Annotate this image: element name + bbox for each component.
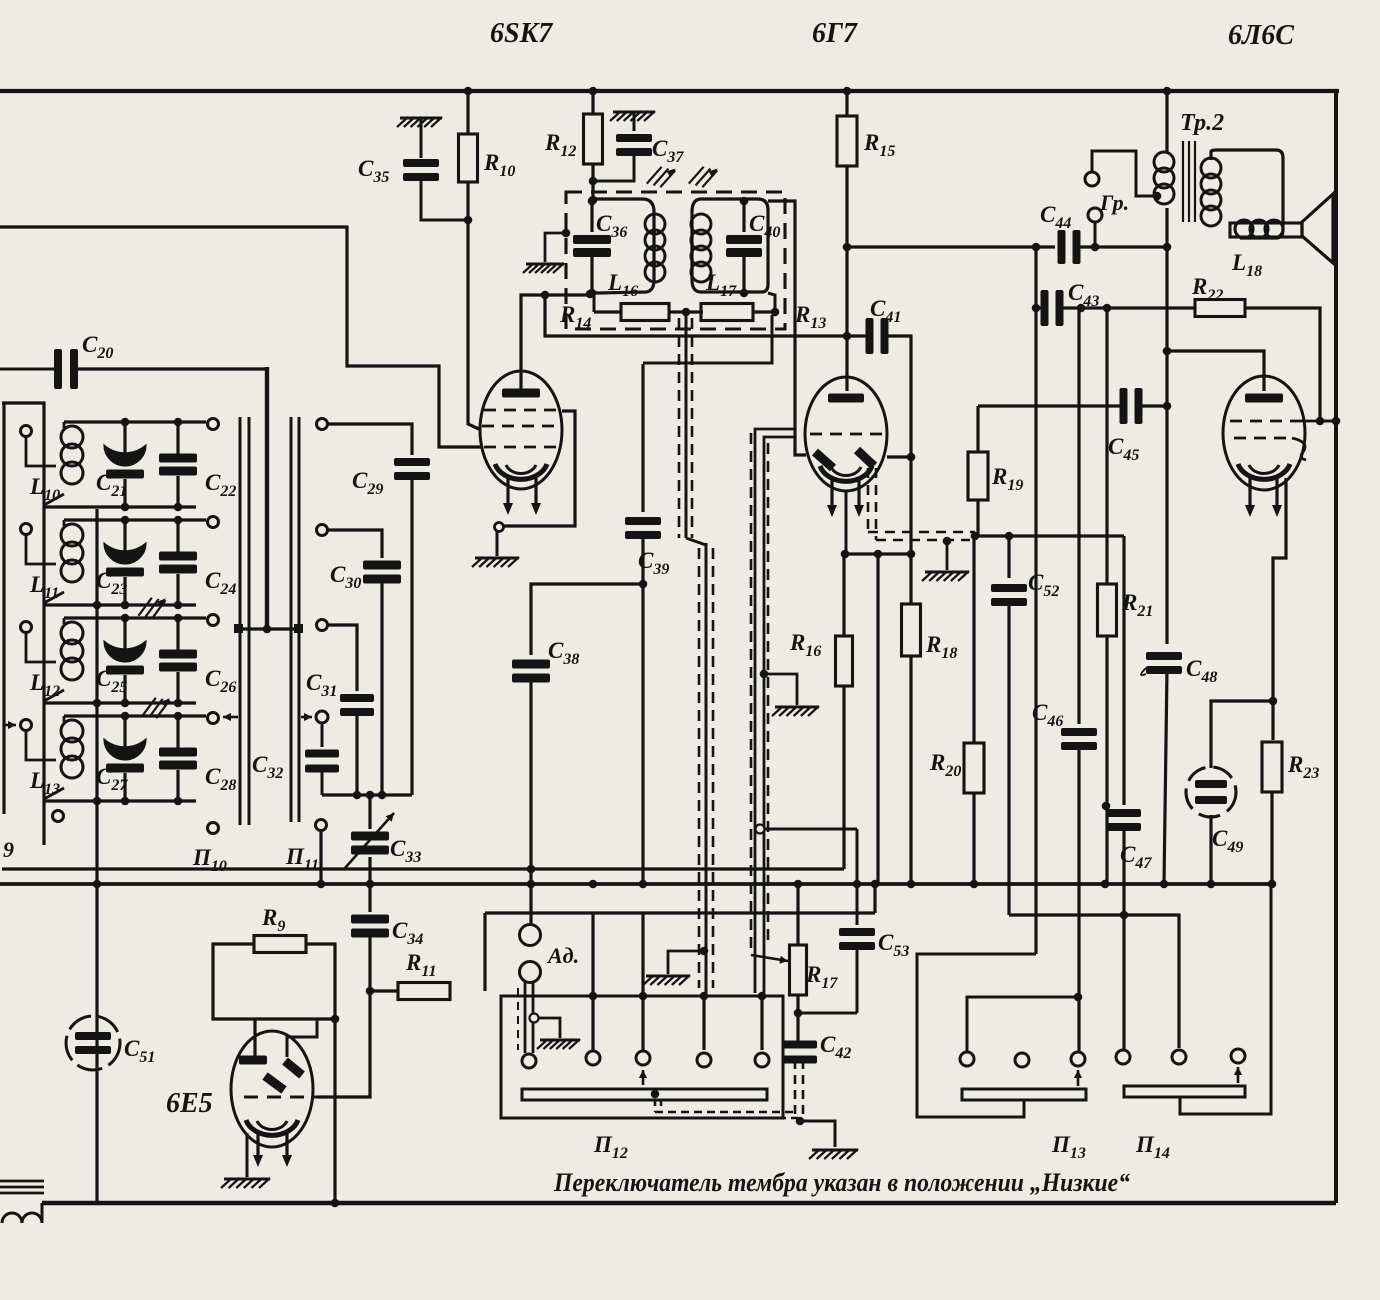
tube 6SK7 xyxy=(480,371,562,489)
wire dashed pair to П12 bar xyxy=(655,1098,798,1118)
wire 6SK7 top cap link xyxy=(521,290,594,389)
capacitor C39 xyxy=(625,517,661,539)
ground П12 right xyxy=(643,975,690,985)
inductor L18 voice coil xyxy=(1230,220,1302,238)
wire mid ground bracket xyxy=(760,670,797,705)
grid 6Г7 dashes xyxy=(810,433,882,436)
wire 6E5 cathode to ground xyxy=(246,1133,249,1177)
label C24 xyxy=(205,568,236,598)
inductor L17 xyxy=(691,214,711,282)
label C32 xyxy=(252,752,283,782)
wire П12 contact3 stem xyxy=(639,913,648,1050)
electrode 6SK7 top cap xyxy=(502,389,540,398)
electrode 6E5 deflector xyxy=(265,1061,302,1090)
label C28 xyxy=(205,764,236,794)
wire 6SK7 anode right xyxy=(504,411,575,526)
wire C41 right xyxy=(885,336,915,461)
node band4 terminal right xyxy=(208,713,219,724)
electrode 6E5 target xyxy=(239,1056,267,1065)
capacitor C38 xyxy=(512,660,550,683)
resistor R14 xyxy=(621,304,669,321)
wire П11 row3 to C31a xyxy=(317,620,358,692)
inductor L10 xyxy=(44,422,83,505)
wire chassis bus upper xyxy=(2,867,844,870)
wire R22 right xyxy=(1245,308,1324,425)
wire right border xyxy=(1334,91,1338,1203)
capacitor C40 xyxy=(726,197,762,298)
svg-text:Гр.: Гр. xyxy=(1099,190,1129,215)
switch box П12 xyxy=(501,996,783,1118)
capacitor C29 xyxy=(394,458,430,795)
resistor R22 xyxy=(1195,300,1245,317)
electrode 6Л6С top cap xyxy=(1245,394,1283,403)
label C43 xyxy=(1068,280,1099,310)
resistor R12 xyxy=(584,114,603,164)
wire C38 to antenna jack xyxy=(527,678,536,925)
filament 6E5 arrows xyxy=(253,1132,292,1167)
label Гр. xyxy=(1099,190,1129,215)
label L16 xyxy=(607,270,638,300)
capacitor C33 padder xyxy=(345,813,394,868)
wire dashed to R19 node xyxy=(868,532,975,540)
cathode 6Г7 xyxy=(820,466,872,481)
capacitor C21 variable xyxy=(104,422,146,507)
node top bus junctions xyxy=(464,87,1172,96)
node band3 terminal right xyxy=(208,615,219,626)
label П10 xyxy=(192,845,227,875)
filament 6Л6С arrows xyxy=(1245,478,1282,517)
switch П14 bar xyxy=(1124,1086,1245,1097)
wire R19 bottom xyxy=(976,500,979,536)
inductor L12 xyxy=(44,618,83,701)
label L10 xyxy=(29,474,60,504)
wire tank2 to 6G7 grid xyxy=(768,201,806,455)
capacitor C23 variable xyxy=(104,520,146,605)
wire band3 bottom row xyxy=(44,699,196,708)
label П14 xyxy=(1135,1132,1170,1162)
wire 6E5 grid stem xyxy=(287,1019,317,1057)
wire ground stem AVC xyxy=(943,537,952,570)
label П11 xyxy=(285,844,319,874)
wire band2 bottom row xyxy=(44,601,196,610)
wire П12 contact2 stem xyxy=(589,880,598,1050)
capacitor C27 variable xyxy=(104,716,146,801)
wire C42 dashed down xyxy=(795,1060,803,1114)
node П14 contact2 xyxy=(1172,1050,1186,1064)
wire R17 stem top xyxy=(794,554,878,888)
node Гр terminals xyxy=(1085,172,1102,222)
wire 6SK7 cathode stem xyxy=(496,531,499,556)
node antenna jack xyxy=(520,925,541,983)
inductor L16 xyxy=(645,214,665,282)
label L13 xyxy=(29,768,60,798)
wire C41 left xyxy=(847,334,869,337)
wire AVC bundle A xyxy=(679,312,713,993)
label П13 xyxy=(1051,1132,1086,1162)
label R22 xyxy=(1191,274,1223,304)
wire R17 C53 link xyxy=(798,1012,857,1015)
label C53 xyxy=(878,930,909,960)
cathode 6Л6С xyxy=(1238,464,1290,479)
capacitor C22 trimmer xyxy=(159,422,197,507)
wire chassis link line xyxy=(485,880,879,913)
shield box IF transformer xyxy=(566,192,785,329)
wire band4 bottom row xyxy=(44,797,196,806)
wire C48 down xyxy=(1160,670,1169,888)
cathode 6E5 xyxy=(246,1120,298,1135)
core mark band coils lower xyxy=(142,694,169,720)
speaker horn xyxy=(1302,194,1333,263)
wire arrow into band4 right circle xyxy=(223,713,238,721)
node C31 terminal circle xyxy=(316,711,328,723)
wire 6E5 grid dashes xyxy=(244,1096,318,1099)
tube 6Л6С xyxy=(1223,376,1305,490)
resistor R23 xyxy=(1262,742,1282,792)
node band2 terminal right xyxy=(208,517,219,528)
node П13 contact3 xyxy=(1071,1052,1085,1086)
switch П12 bar xyxy=(522,1089,767,1100)
tube 6Г7 xyxy=(805,377,887,491)
wire C44 column down xyxy=(1034,247,1037,954)
core mark band coils upper xyxy=(138,594,165,620)
capacitor C28 trimmer xyxy=(159,716,197,801)
wire C39 down xyxy=(639,535,648,888)
node П10 circle xyxy=(208,823,219,834)
capacitor C31 upper pair xyxy=(340,694,374,795)
wire plate line to C44 xyxy=(847,245,1055,248)
node band1 terminal left xyxy=(21,426,32,437)
ground shield tap xyxy=(537,1039,580,1049)
wire R9 left leg xyxy=(213,944,339,1023)
wire C43 line xyxy=(1032,304,1196,313)
label C49 xyxy=(1212,826,1243,856)
wire C33 to bus xyxy=(366,857,375,912)
wire chassis bus lower xyxy=(0,882,1272,886)
resistor R17 xyxy=(790,945,807,995)
wire left outer vertical xyxy=(2,403,5,814)
label C51 xyxy=(124,1036,155,1066)
label R18 xyxy=(925,632,957,662)
resistor R20 xyxy=(964,536,984,888)
wire arrow into R17 xyxy=(751,955,788,964)
svg-text:6SK7: 6SK7 xyxy=(490,18,553,49)
wire band4 top row xyxy=(64,712,206,721)
wire left RF common vertical xyxy=(93,509,102,1203)
resistor R15 xyxy=(837,116,857,166)
node П12 contact5 xyxy=(755,1053,769,1067)
transformer Тр.2 core xyxy=(1183,141,1195,222)
wire trimmer row junction xyxy=(322,791,412,800)
capacitor C46 xyxy=(1061,308,1097,1052)
wire tank1 loop xyxy=(592,199,654,293)
wire 6E5 target stem xyxy=(253,1019,256,1058)
label C29 xyxy=(352,468,383,498)
wire rotor bridge xyxy=(234,624,303,633)
label C44 xyxy=(1040,202,1071,232)
node band4 terminal left xyxy=(21,720,32,731)
wire band1 terminal stem xyxy=(26,436,56,466)
label L12 xyxy=(29,670,60,700)
label R21 xyxy=(1121,590,1153,620)
wire П11 row1 to C29 xyxy=(317,419,413,456)
label C47 xyxy=(1120,842,1152,872)
wire AVC bundle B xyxy=(751,429,795,1000)
wire 6Г7 anode xyxy=(887,455,911,458)
label 6Л6С xyxy=(1228,20,1294,51)
wire C52 to П14 link xyxy=(1009,911,1179,1048)
label Ад. xyxy=(546,943,579,968)
node П12 contact1 xyxy=(522,1054,536,1068)
label 6Г7 xyxy=(812,18,858,49)
tube 6E5 xyxy=(231,1031,313,1147)
ground left of C36 bracket xyxy=(545,229,570,262)
ground above C35 xyxy=(397,117,442,127)
node П13 contact2 xyxy=(1015,1053,1029,1067)
wire R13 right to tank2 xyxy=(768,293,775,312)
capacitor C24 trimmer xyxy=(159,520,197,605)
wire plate branch to C41 xyxy=(545,295,845,336)
wire R15 top xyxy=(845,91,848,116)
label R20 xyxy=(929,750,961,780)
wire П14 rotor path xyxy=(1180,886,1271,1114)
ground 6E5 xyxy=(221,1178,270,1188)
node shield tap xyxy=(530,1014,561,1039)
cathode 6SK7 xyxy=(495,464,547,479)
wire R12 bottom xyxy=(589,164,598,204)
wire C33 column xyxy=(368,795,371,829)
transformer Тр.2 primary xyxy=(1154,91,1174,247)
capacitor C47 xyxy=(1107,536,1141,1050)
wire 6E5 grid link xyxy=(318,991,370,1097)
wire Гр upper link xyxy=(1092,151,1161,200)
filament 6Г7 arrows xyxy=(827,480,864,517)
wire П13 rotor path xyxy=(917,954,1036,1117)
node R19 bottom junction xyxy=(971,532,1014,541)
wire C49 bracket xyxy=(1211,701,1273,768)
label R9 xyxy=(261,905,285,935)
wire band2 terminal stem xyxy=(26,534,56,564)
wire R10 bottom xyxy=(464,182,473,224)
capacitor C31 lower pair xyxy=(305,723,339,795)
label C27 xyxy=(96,764,128,794)
wire П12 contact5 stem xyxy=(760,996,763,1050)
wire П13 bracket xyxy=(967,993,1082,1052)
inductor L11 xyxy=(44,520,83,603)
wire R17 bottom xyxy=(794,995,803,1042)
node П14 contact1 xyxy=(1116,1050,1130,1064)
capacitor C25 variable xyxy=(104,618,146,703)
wire band3 top row xyxy=(64,614,206,623)
node 6SK7 cathode xyxy=(495,523,504,532)
resistor R19 xyxy=(968,452,988,500)
wire band1 top row xyxy=(64,418,206,427)
label C22 xyxy=(205,470,236,500)
wire R14 R13 row xyxy=(594,308,779,317)
wire C45 line xyxy=(978,402,1171,411)
label L17 xyxy=(705,270,737,300)
label Тр.2 xyxy=(1180,110,1224,136)
capacitor C53 xyxy=(839,880,875,1013)
ground middle xyxy=(772,706,819,716)
label C26 xyxy=(205,666,236,696)
resistor R10 xyxy=(459,134,478,182)
node band2 terminal left xyxy=(21,524,32,535)
wire R18 stem xyxy=(909,457,912,604)
node band3 terminal left xyxy=(21,622,32,633)
node terminal П9 xyxy=(53,811,64,822)
electrode 6Г7 diode plates xyxy=(815,450,874,468)
ground 6SK7 cathode xyxy=(472,557,519,567)
label C36 xyxy=(596,211,627,241)
wire left input riser xyxy=(2,403,44,845)
label C52 xyxy=(1028,570,1059,600)
inductor L13 xyxy=(44,716,83,799)
label C38 xyxy=(548,638,579,668)
capacitor C42 xyxy=(783,1041,817,1064)
capacitor C43 xyxy=(1041,290,1064,326)
wire screen feed down xyxy=(1163,247,1172,644)
wire C49 down xyxy=(1207,815,1216,888)
wire 6Г7 cathode node xyxy=(841,492,916,558)
label C39 xyxy=(638,548,669,578)
wire C38 branch xyxy=(531,584,643,655)
core mark IF1 xyxy=(647,162,676,189)
capacitor C30 xyxy=(363,561,401,796)
label R23 xyxy=(1287,752,1319,782)
label 9 of П9 xyxy=(3,837,14,862)
label C37 xyxy=(652,136,684,166)
node П13 contact1 xyxy=(960,1052,974,1066)
grid 6SK7 dashes xyxy=(482,410,560,447)
label L11 xyxy=(29,572,59,602)
capacitor C26 trimmer xyxy=(159,618,197,703)
svg-text:Тр.2: Тр.2 xyxy=(1180,110,1224,136)
wire shielded pair xyxy=(518,982,533,1053)
node band1 terminal right xyxy=(208,419,219,430)
wire R17 top xyxy=(796,884,799,945)
label R14 xyxy=(559,302,591,332)
label R10 xyxy=(483,150,515,180)
label 6SK7 xyxy=(490,18,553,49)
resistor R16 xyxy=(836,636,853,686)
label 6E5 xyxy=(166,1088,213,1119)
node П12 contact4 xyxy=(697,1053,711,1067)
core mark IF2 xyxy=(689,162,718,189)
svg-text:9: 9 xyxy=(3,837,14,862)
label C46 xyxy=(1032,700,1063,730)
wire band1 bottom row xyxy=(44,503,196,512)
wire R11 riser xyxy=(483,913,486,991)
wire grid feed 6Л6С xyxy=(1167,351,1264,391)
wire 6Л6С cathode down xyxy=(1269,478,1286,740)
wire arrow into band4 terminal xyxy=(4,721,16,729)
inductor power coil fragment xyxy=(2,1203,42,1223)
label П12 xyxy=(593,1132,628,1162)
svg-text:6Г7: 6Г7 xyxy=(812,18,858,49)
ground below C42 xyxy=(809,1149,858,1159)
label C42 xyxy=(820,1032,851,1062)
svg-text:Ад.: Ад. xyxy=(546,943,579,968)
caption switch position note xyxy=(553,1168,1130,1197)
switch П10 wafer bars xyxy=(240,417,249,825)
wire detector output line xyxy=(643,315,772,363)
wire tank2 loop xyxy=(692,199,768,292)
wire П11 row2 to C30 xyxy=(317,525,383,559)
capacitor C44 xyxy=(1058,230,1081,264)
label C40 xyxy=(749,211,780,241)
label R11 xyxy=(405,950,436,980)
capacitor C35 xyxy=(403,119,466,220)
wire R19 top xyxy=(976,406,979,452)
capacitor C20 xyxy=(54,349,78,389)
label R19 xyxy=(991,464,1023,494)
label C48 xyxy=(1141,656,1217,686)
capacitor C34 xyxy=(351,915,389,938)
label R15 xyxy=(863,130,895,160)
wire R18 bottom xyxy=(907,656,916,888)
wire П12 contact4 stem xyxy=(702,996,705,1050)
label C21 xyxy=(96,470,127,500)
switch П11 wafer bars xyxy=(291,417,299,822)
wire band3 terminal stem xyxy=(26,632,56,662)
node П12 contact4 top xyxy=(700,992,709,1001)
wire top supply bus xyxy=(0,89,1339,93)
transformer Тр.2 secondary xyxy=(1201,150,1283,238)
label C34 xyxy=(392,918,423,948)
ground AVC line xyxy=(922,571,969,581)
node П12 contact2 xyxy=(586,1051,600,1065)
ground above C37 xyxy=(610,111,655,121)
capacitor C52 xyxy=(991,536,1027,915)
label R17 xyxy=(805,962,838,992)
label C25 xyxy=(96,666,127,696)
wire C44 right xyxy=(1032,243,1172,252)
wire 6Л6С grid row ext xyxy=(1298,420,1316,423)
wire C20 left xyxy=(0,368,56,371)
label C33 xyxy=(390,836,421,866)
label C35 xyxy=(358,156,389,186)
label R12 xyxy=(544,130,576,160)
resistor R21 xyxy=(1098,308,1117,888)
wire R23 bottom xyxy=(1268,792,1277,888)
wire R15 to plate node xyxy=(843,166,852,251)
resistor R18 xyxy=(902,604,921,656)
label C41 xyxy=(870,296,901,326)
capacitor C45 xyxy=(1120,388,1143,424)
wire R15 to tube cap xyxy=(843,247,852,391)
transformer core lines bottom left xyxy=(0,1181,44,1193)
resistor R9 xyxy=(254,936,306,953)
filament 6SK7 arrows xyxy=(503,478,541,515)
label C31 xyxy=(306,670,337,700)
wire feedback line xyxy=(975,534,1124,537)
wire R10 to grid xyxy=(468,220,479,429)
wire grid row to border xyxy=(1316,417,1340,426)
wire 6Л6С screen hook xyxy=(1292,438,1306,460)
wire Гр lower link xyxy=(1094,222,1097,247)
capacitor C37 xyxy=(597,113,652,181)
wire C42 junction to ground xyxy=(796,1117,835,1147)
wire R10 top xyxy=(466,91,469,134)
label L18 xyxy=(1231,250,1262,280)
svg-text:6E5: 6E5 xyxy=(166,1088,213,1119)
wire C34 down xyxy=(366,933,375,995)
label C30 xyxy=(330,562,361,592)
svg-text:Переключатель тембра указан в: Переключатель тембра указан в положении … xyxy=(553,1168,1130,1197)
electrode 6Г7 top cap xyxy=(828,394,864,403)
resistor R13 xyxy=(701,304,753,321)
label R16 xyxy=(789,630,821,660)
